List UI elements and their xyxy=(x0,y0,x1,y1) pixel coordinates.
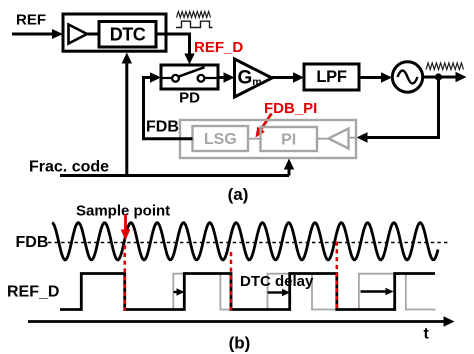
wire FDB loop to PD input xyxy=(144,72,193,138)
svg-text:REF_D: REF_D xyxy=(7,284,59,301)
block DTC inner box xyxy=(99,22,156,48)
waveform FDB sine xyxy=(52,223,438,260)
wire PI to buffer (gray) xyxy=(317,138,329,140)
svg-text:(b): (b) xyxy=(229,334,251,353)
sample line red dashed 3 xyxy=(336,242,339,311)
wire Frac. code horizontal xyxy=(60,174,289,177)
wire PD internal right xyxy=(205,77,219,79)
switch contact right xyxy=(198,75,205,82)
switch contact left xyxy=(172,75,179,82)
wire REF_D vertical into PD xyxy=(184,33,194,65)
wire REF input xyxy=(12,29,63,39)
waveform REF_D black (DTC delayed) xyxy=(60,274,435,310)
wire feedback from output node down and left xyxy=(357,77,439,143)
wire DTC output to corner xyxy=(156,33,191,36)
wire gray buffer input stub xyxy=(349,137,357,139)
svg-text:REF: REF xyxy=(16,12,46,29)
svg-text:LPF: LPF xyxy=(316,68,346,86)
noise squiggle above DTC output xyxy=(177,12,211,18)
buffer amplifier inside DTC block xyxy=(69,25,88,44)
block LPF xyxy=(304,64,359,90)
block feedback outer gray box xyxy=(180,120,356,158)
svg-text:Frac. code: Frac. code xyxy=(29,159,109,176)
switch lever xyxy=(178,67,205,77)
svg-text:PI: PI xyxy=(281,132,296,149)
block LSG xyxy=(193,126,249,151)
wire oscillator output xyxy=(423,72,467,82)
noise squiggle at oscillator output xyxy=(426,63,464,70)
annotation DTC delay arrow 2 xyxy=(268,289,291,297)
block PI xyxy=(261,127,318,151)
wire Gm to LPF xyxy=(272,72,304,82)
wire buffer to DTC xyxy=(87,33,99,36)
svg-text:FDB: FDB xyxy=(146,119,179,136)
op-amp Gm xyxy=(235,59,273,97)
svg-text:LSG: LSG xyxy=(204,131,237,148)
block DTC outer box xyxy=(63,14,166,51)
sample line red dashed 2 xyxy=(230,252,233,311)
annotation arrow FDB_PI xyxy=(256,114,272,138)
wire LSG to PI (gray) xyxy=(248,138,261,140)
sample line red dashed 1 xyxy=(123,245,126,311)
pulse waveform icon xyxy=(176,21,213,27)
svg-text:PD: PD xyxy=(179,90,200,107)
wire PD to Gm xyxy=(218,72,235,82)
svg-text:DTC: DTC xyxy=(110,24,146,44)
block PD box xyxy=(161,65,218,89)
time axis xyxy=(28,316,455,326)
svg-text:FDB: FDB xyxy=(16,234,49,251)
node junction dot on output xyxy=(435,73,442,80)
svg-text:(a): (a) xyxy=(228,185,249,204)
wire Frac. code branch up to DTC xyxy=(122,53,132,176)
svg-text:REF_D: REF_D xyxy=(194,39,243,56)
wire PD internal left xyxy=(161,77,172,79)
svg-text:Sample point: Sample point xyxy=(76,203,170,220)
svg-text:t: t xyxy=(424,326,430,343)
dashed zero line FDB waveform xyxy=(48,242,448,244)
svg-text:DTC delay: DTC delay xyxy=(240,273,314,290)
annotation DTC delay arrow 3 xyxy=(361,288,394,296)
annotation sample point red arrow xyxy=(121,214,131,241)
wire Frac. code branch up to PI xyxy=(284,159,294,176)
oscillator U1 xyxy=(392,62,422,92)
waveform REF_D gray (undelayed) xyxy=(173,274,435,310)
buffer amplifier gray (points left) xyxy=(329,129,349,149)
wire LPF to oscillator xyxy=(359,72,392,82)
annotation DTC delay arrow 1 xyxy=(174,288,185,296)
